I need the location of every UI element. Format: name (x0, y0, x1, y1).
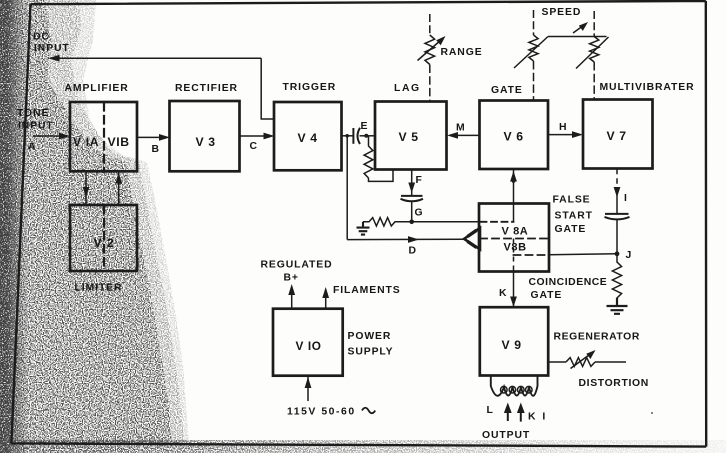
speed left wiper diagonal (514, 37, 548, 69)
svg-text:RANGE: RANGE (441, 47, 483, 58)
wire resistor to V5 bottom (369, 170, 394, 182)
speed right potentiometer wire top dashed (593, 11, 595, 37)
lag V5 block (375, 102, 447, 170)
dark left edge strip (0, 0, 28, 453)
svg-text:E: E (361, 121, 369, 132)
dashed wire inside V8B down (513, 239, 515, 272)
speed ganged connector wire (548, 36, 607, 38)
V1 to V2 wire down (85, 172, 87, 205)
wire D horizontal with arrow (347, 238, 464, 240)
svg-text:INPUT: INPUT (34, 43, 70, 54)
svg-text:COINCIDENCE: COINCIDENCE (529, 277, 608, 288)
speed right wiper diagonal (576, 37, 609, 69)
power supply V10 block (273, 309, 343, 376)
svg-text:J: J (626, 250, 633, 261)
range potentiometer wire top dashed (429, 14, 431, 35)
svg-text:REGULATED: REGULATED (261, 260, 333, 271)
capacitor E (352, 128, 354, 144)
svg-text:DISTORTION: DISTORTION (579, 378, 649, 389)
ground symbol below J resistor (607, 298, 628, 314)
svg-text:A: A (28, 142, 36, 153)
svg-text:V IO: V IO (296, 339, 322, 353)
svg-text:V 9: V 9 (502, 338, 522, 352)
amplifier V1A/V1B dashed divider (103, 103, 105, 170)
wire arrow to capacitor I (616, 195, 618, 214)
svg-text:TRIGGER: TRIGGER (283, 82, 337, 93)
svg-text:K: K (499, 288, 507, 299)
limiter V2 dashed divider (103, 206, 105, 270)
wire B V1 to V3 (137, 136, 162, 138)
resistor below J (612, 254, 621, 304)
scan texture left region (0, 0, 200, 453)
multivibrator V7 block (583, 100, 653, 169)
svg-text:REGENERATOR: REGENERATOR (554, 332, 640, 343)
wire F V5 bottom to capacitor G (411, 170, 413, 196)
svg-text:INPUT: INPUT (18, 121, 54, 132)
speed left potentiometer wire bottom dashed (533, 61, 535, 101)
output tap arrow K1 (520, 406, 522, 422)
output tap arrow L (507, 406, 509, 421)
ground symbol near G resistor (357, 222, 370, 235)
distortion pot wire right (595, 361, 626, 363)
wire V8B to node J (549, 254, 618, 255)
V8A dashed line (481, 221, 514, 223)
rectifier V3 block (170, 101, 240, 171)
speckle mark right (651, 412, 653, 414)
svg-text:K I: K I (528, 412, 547, 423)
svg-text:115V 50-60: 115V 50-60 (287, 407, 356, 418)
svg-text:POWER: POWER (348, 331, 392, 342)
wire K V8 to V9 with down arrow (513, 272, 515, 308)
svg-text:V 7: V 7 (607, 129, 627, 143)
wire V4 to capacitor E (342, 135, 353, 137)
bottom scan strip (0, 440, 726, 453)
svg-text:V 8A: V 8A (502, 226, 529, 238)
svg-text:LIMITER: LIMITER (75, 283, 123, 294)
false start gate V8 block (479, 204, 549, 272)
wire node to V8 (412, 221, 480, 223)
V8A/V8B dashed divider (480, 238, 549, 240)
wire capacitor I to node J (616, 220, 618, 254)
gate V6 block (480, 101, 549, 170)
wire H V6 to V7 (548, 134, 575, 136)
svg-text:F: F (416, 175, 423, 186)
115V mains wire into V10 (307, 376, 309, 401)
svg-text:GATE: GATE (531, 290, 563, 301)
svg-text:RECTIFIER: RECTIFIER (175, 83, 238, 94)
node G junction dot (409, 220, 414, 225)
wire I V7 bottom dashed to arrow (616, 169, 618, 190)
svg-text:2: 2 (107, 236, 114, 250)
limiter V2 block (70, 205, 137, 271)
svg-text:V IA: V IA (73, 135, 99, 149)
svg-text:I: I (624, 193, 628, 204)
svg-text:V 5: V 5 (399, 130, 419, 144)
wire capacitor G to node (411, 202, 413, 222)
svg-text:GATE: GATE (555, 224, 587, 235)
svg-text:V 6: V 6 (504, 130, 524, 144)
svg-text:GATE: GATE (491, 85, 523, 96)
capacitor I (605, 213, 629, 215)
svg-text:G: G (415, 208, 424, 219)
svg-text:SUPPLY: SUPPLY (348, 347, 394, 358)
svg-text:AMPLIFIER: AMPLIFIER (65, 83, 129, 94)
svg-text:V 3: V 3 (196, 135, 216, 149)
V8B dashed output line (514, 254, 549, 256)
V2 to V1B wire up (118, 172, 120, 205)
tone input wire A (33, 135, 62, 137)
svg-text:FALSE: FALSE (553, 195, 591, 206)
svg-text:L: L (487, 405, 494, 416)
node J dot (615, 251, 620, 256)
sine symbol after 50-60 (362, 408, 375, 414)
svg-text:V 4: V 4 (298, 131, 318, 145)
resistor to ground left of node G (363, 218, 412, 226)
range potentiometer resistor (425, 35, 435, 65)
svg-text:START: START (555, 211, 593, 222)
svg-text:V: V (94, 236, 103, 250)
regulated B+ arrow from V10 (291, 286, 293, 309)
svg-text:M: M (456, 123, 466, 134)
speed right potentiometer wire bottom dashed (593, 62, 595, 100)
distortion pot wire from V9 (548, 361, 566, 363)
speed right potentiometer resistor (590, 37, 599, 63)
svg-text:SPEED: SPEED (542, 7, 582, 18)
wire capacitor E to V5 (360, 135, 376, 137)
output transformer coil below V9 (491, 376, 538, 396)
svg-text:C: C (250, 141, 258, 152)
speed connector arrow (573, 26, 584, 34)
speed left potentiometer resistor (529, 35, 538, 61)
amplifier V1 block (70, 102, 137, 171)
speed left potentiometer wire top dashed (533, 10, 535, 35)
wire M V6 to V5 with arrow (454, 134, 480, 136)
svg-text:B: B (152, 144, 160, 155)
wire D from node at E down (346, 136, 348, 240)
wire inside V8 from top (513, 204, 515, 222)
svg-text:D: D (409, 246, 417, 257)
range potentiometer arrow (418, 40, 442, 61)
svg-text:DC: DC (33, 32, 50, 43)
svg-text:MULTIVIBRATER: MULTIVIBRATER (600, 82, 695, 93)
svg-text:OUTPUT: OUTPUT (482, 430, 530, 441)
svg-text:H: H (559, 122, 567, 133)
svg-text:FILAMENTS: FILAMENTS (333, 285, 401, 296)
wire V6 bottom to V8 top with up arrow (513, 169, 515, 203)
svg-text:B+: B+ (284, 273, 299, 284)
grid resistor below E (364, 136, 373, 178)
dc input wire with left arrow (261, 58, 274, 119)
svg-text:LAG: LAG (394, 83, 421, 94)
distortion pot resistor (566, 358, 595, 367)
regenerator V9 block (480, 307, 548, 375)
range potentiometer wire bottom dashed (429, 65, 431, 102)
svg-text:TONE: TONE (17, 108, 49, 119)
coincidence input triangle (464, 228, 480, 249)
filaments arrow from V10 (325, 289, 327, 309)
trigger V4 block (274, 102, 342, 170)
distortion wiper arrow (571, 354, 592, 369)
svg-text:VIB: VIB (108, 135, 130, 149)
wire C V3 to V4 (240, 135, 267, 137)
capacitor G (401, 195, 423, 197)
svg-text:V8B: V8B (504, 242, 527, 254)
